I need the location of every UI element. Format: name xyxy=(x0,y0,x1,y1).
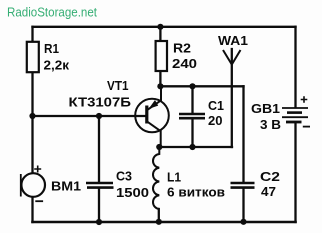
svg-text:C3: C3 xyxy=(116,169,132,184)
wire collector line xyxy=(159,146,232,148)
resistor R1 xyxy=(27,42,39,72)
svg-text:R2: R2 xyxy=(173,41,191,56)
wire R2 top xyxy=(159,27,161,41)
resistor R2 xyxy=(156,41,167,71)
svg-text:1500: 1500 xyxy=(116,185,149,200)
wire antenna feed xyxy=(231,49,233,147)
junction node bottom rail / C2 xyxy=(240,219,246,225)
svg-text:GB1: GB1 xyxy=(251,101,280,116)
svg-text:2,2к: 2,2к xyxy=(44,58,70,73)
wire left rail bottom (mic to bottom rail) xyxy=(31,197,33,222)
capacitor C3 plates xyxy=(86,182,113,185)
junction node base / C3 xyxy=(96,113,102,119)
junction node collector line / C1 xyxy=(189,144,195,150)
battery GB1 symbol xyxy=(282,107,308,109)
BM1 plus sign xyxy=(34,166,41,173)
BM1 minus sign xyxy=(35,200,43,202)
wire emitter node line xyxy=(160,85,243,87)
svg-text:3 В: 3 В xyxy=(260,117,281,132)
svg-text:R1: R1 xyxy=(44,41,59,56)
svg-text:L1: L1 xyxy=(167,170,181,185)
svg-text:VT1: VT1 xyxy=(107,78,129,93)
junction node collector line / L1 xyxy=(156,144,162,150)
svg-text:BM1: BM1 xyxy=(51,179,81,194)
junction node emitter line / R2 xyxy=(157,83,163,89)
junction node emitter line / C1 xyxy=(189,83,195,89)
transistor VT1 circle xyxy=(135,99,169,133)
wire C3 top lead xyxy=(98,116,100,182)
junction node bottom rail / L1 xyxy=(156,219,162,225)
svg-text:20: 20 xyxy=(208,113,223,128)
svg-text:WA1: WA1 xyxy=(218,33,248,48)
wire C1 bottom lead xyxy=(191,119,193,147)
wire right rail lower (battery to bottom) xyxy=(294,123,296,223)
transistor VT1 emitter arrow xyxy=(149,100,159,109)
junction node top rail / R2 xyxy=(157,24,163,30)
wire C1 top lead xyxy=(191,86,193,112)
svg-text:240: 240 xyxy=(172,56,197,71)
junction node bottom rail / C3 xyxy=(96,219,102,225)
transistor VT1 collector line xyxy=(148,122,161,147)
microphone BM1 xyxy=(21,173,45,197)
svg-text:C1: C1 xyxy=(208,98,224,113)
svg-text:6 витков: 6 витков xyxy=(167,185,225,200)
wire top rail xyxy=(33,26,296,28)
capacitor C2 plates xyxy=(231,182,255,185)
inductor L1 coil xyxy=(153,147,159,209)
transistor VT1 emitter line xyxy=(148,86,162,110)
wire C2 bottom xyxy=(242,189,244,222)
transistor VT1 base bar xyxy=(145,106,148,124)
svg-text:47: 47 xyxy=(261,184,276,199)
wire right branch down to C2 xyxy=(242,86,244,181)
wire R2 bottom to top line xyxy=(159,71,161,86)
wire left rail middle (R1 to mic) xyxy=(31,72,33,173)
antenna WA1 symbol xyxy=(223,50,241,65)
wire bottom rail xyxy=(33,221,296,224)
wire base line (left rail to transistor base) xyxy=(33,115,146,117)
svg-text:C2: C2 xyxy=(260,169,280,184)
svg-text:RadioStorage.net: RadioStorage.net xyxy=(7,5,97,20)
wire C3 bottom lead xyxy=(98,189,100,222)
svg-text:КТ3107Б: КТ3107Б xyxy=(69,95,132,110)
GB1 plus sign xyxy=(301,96,308,103)
wire L1 bottom lead xyxy=(158,209,160,222)
wire right rail upper (to battery) xyxy=(294,27,296,107)
GB1 minus sign xyxy=(303,126,310,128)
capacitor C1 plates xyxy=(179,113,205,116)
wire left rail top (to R1) xyxy=(31,27,33,42)
junction node left rail / base xyxy=(29,113,35,119)
